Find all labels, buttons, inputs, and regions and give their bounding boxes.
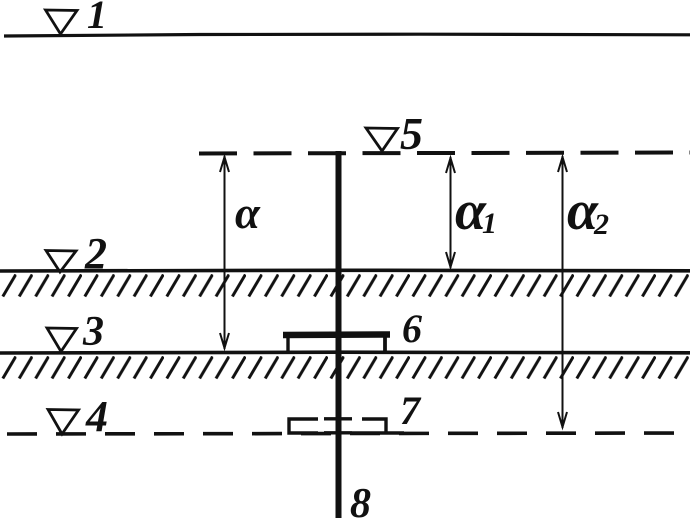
level symbol 1	[46, 10, 78, 34]
svg-text:6: 6	[402, 306, 422, 351]
svg-text:α: α	[235, 188, 261, 238]
svg-text:1: 1	[87, 0, 107, 37]
level symbol 4	[48, 410, 79, 435]
flange 6 on pile at line 3	[283, 334, 390, 352]
svg-text:3: 3	[82, 309, 104, 355]
ground line 2	[0, 268, 690, 272]
dashed lowered level line 4	[7, 433, 690, 434]
label alpha1	[455, 180, 497, 242]
label 3	[82, 309, 104, 355]
dimension arrow a1 (line5 to line2)	[446, 157, 455, 268]
svg-text:1: 1	[482, 207, 497, 240]
level symbol 5	[366, 128, 398, 151]
svg-text:5: 5	[400, 108, 423, 159]
svg-text:2: 2	[84, 229, 107, 278]
dimension arrow a (line5 to line3)	[220, 156, 229, 349]
label 1	[87, 0, 107, 37]
collar 7 on pile at line 4	[289, 419, 404, 433]
svg-text:4: 4	[85, 392, 108, 441]
dimension arrow a2 (line5 to line4)	[558, 156, 567, 428]
svg-text:7: 7	[400, 388, 422, 433]
label 6	[402, 306, 422, 351]
label 7	[400, 388, 422, 433]
pile (vertical shaft) 8	[336, 151, 342, 518]
hatching under line 2	[0, 274, 690, 298]
ground line 3	[0, 350, 690, 354]
label 2	[84, 229, 107, 278]
svg-text:8: 8	[350, 481, 371, 524]
water surface line 1	[4, 34, 690, 36]
label 4	[85, 392, 108, 441]
label alpha	[235, 188, 261, 238]
level symbol 2	[46, 251, 76, 273]
svg-text:2: 2	[593, 208, 609, 241]
level symbol 3	[47, 328, 77, 352]
dashed raised level line 5	[199, 153, 690, 154]
hatching under line 3	[0, 356, 690, 380]
label alpha2	[567, 180, 609, 242]
label 8	[350, 481, 371, 524]
label 5	[400, 108, 423, 159]
